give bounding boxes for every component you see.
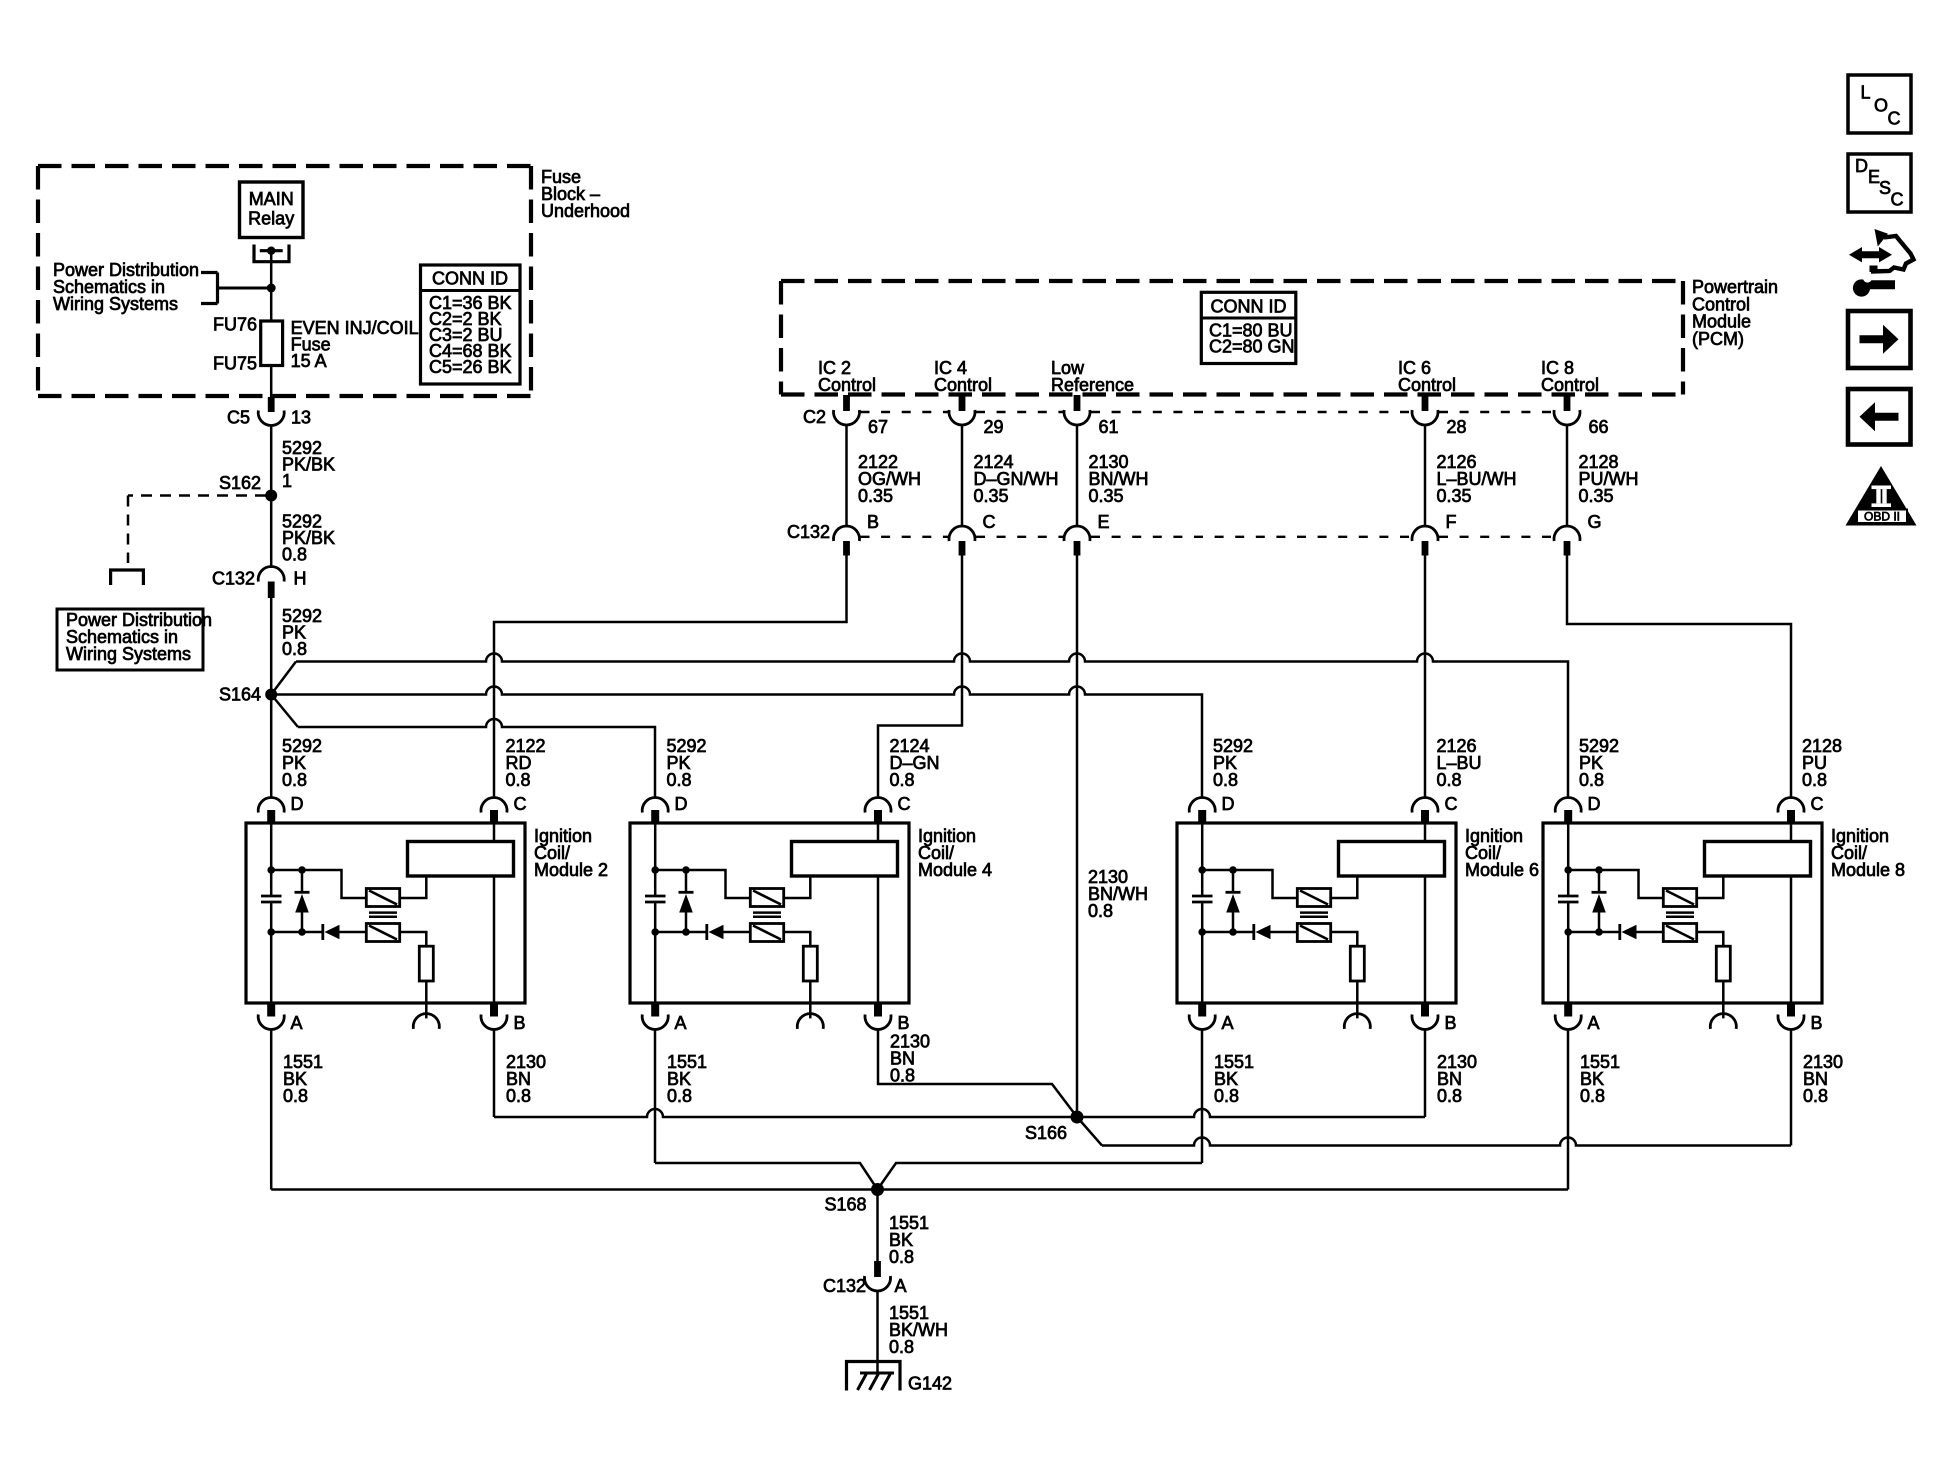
svg-text:C: C [1445,794,1458,814]
svg-text:0.8: 0.8 [506,770,531,790]
svg-text:C5: C5 [227,408,250,428]
splice S168 [824,1183,884,1215]
module 6 pin A connector [1189,1003,1233,1033]
module 2 pin A connector [258,1003,302,1033]
wire 2130 BN 0.8 module 8 pin B to S166 branch [1791,1030,1843,1146]
module 8 internal lower wire [1568,931,1620,934]
svg-text:D: D [1855,156,1868,176]
module 2 pin B connector [481,1003,526,1033]
PCM pin function label IC 4 Control [934,358,992,395]
wire 5292 PK 0.8 from S164 to module 2 pin D [271,695,322,798]
module 4 pin C connector [865,794,910,823]
svg-text:Wiring Systems: Wiring Systems [53,294,178,314]
svg-text:H: H [294,569,307,589]
module 4 wire igniter to primary [784,876,811,898]
splice S166 [1025,1111,1084,1144]
svg-text:0.8: 0.8 [282,770,307,790]
connector C132 terminal C [949,512,996,556]
svg-text:0.8: 0.8 [890,1066,915,1086]
wire 2130 BN 0.8 module 6 pin B to S166 [1425,1030,1477,1118]
svg-text:Relay: Relay [248,209,294,229]
wire 1551 BK 0.8 module 2 pin A to ground bus [271,1030,323,1190]
wire 2130 BN splice line through S166 [494,1109,1425,1117]
module 6 diode [1254,924,1298,940]
svg-text:0.35: 0.35 [1089,486,1124,506]
svg-text:61: 61 [1099,417,1119,437]
wire 2124 D–GN/WH 0.35 from PCM to C132 [962,425,1059,527]
module 8 wire igniter to pin B [1790,876,1793,1003]
svg-text:(PCM): (PCM) [1692,329,1744,349]
svg-text:C132: C132 [212,569,255,589]
module 6 junction dots [1198,866,1236,936]
module 8 pin D connector [1555,794,1600,823]
splice S164 [219,685,277,705]
wire 2124 D-GN 0.8 from C132 C to module 4 pin C [878,556,962,798]
ignition coil/module 8 box [1543,823,1822,1003]
svg-text:Underhood: Underhood [541,201,630,221]
module 8 resistor [1716,946,1730,981]
svg-text:13: 13 [291,408,311,428]
wire 2122 OG/WH 0.35 from PCM to C132 [847,425,922,527]
svg-text:S168: S168 [824,1195,866,1215]
wire 5292 PK/BK 1 from C5 to S162 [271,426,335,496]
svg-text:0.8: 0.8 [667,1086,692,1106]
icon OBD II triangle [1846,466,1917,526]
svg-text:0.35: 0.35 [1437,486,1472,506]
module 2 junction dots [267,866,305,936]
svg-text:0.8: 0.8 [1580,1086,1605,1106]
module 4 wire pin C to igniter [877,823,880,842]
wire S166 branch to module 8 pin B [1077,1117,1791,1146]
icon LOC box [1848,75,1911,133]
module 4 resistor [803,946,817,981]
module 8 zener diode [1592,870,1607,932]
module 6 coil secondary winding [1297,924,1330,942]
svg-text:Control: Control [934,375,992,395]
module 6 wire igniter to primary [1331,876,1358,898]
module 2 coil secondary winding [366,924,399,942]
wire 1551 BK 0.8 module 4 pin A to S168 [655,1030,878,1190]
connector C2 terminal 66 [1554,395,1609,437]
icon back arrow box [1848,389,1911,445]
svg-text:CONN ID: CONN ID [1211,297,1287,317]
module 2 internal supply wire [270,823,273,1003]
label Ignition Coil/ Module 4 [918,826,992,880]
wire 2122 RD 0.8 from C132 B to module 2 pin C [494,556,847,798]
module 6 wire igniter to pin B [1424,876,1427,1003]
connector C132 terminal F [1412,512,1457,556]
svg-text:0.8: 0.8 [1802,770,1827,790]
module 6 spark plug terminal (unterminated) [1344,1014,1370,1029]
wire 5292 PK bus to module 8 (top bus) [271,654,1568,798]
svg-text:Control: Control [818,375,876,395]
svg-text:A: A [1222,1013,1234,1033]
module 4 internal top wire to primary [655,870,750,898]
module 4 pin B connector [865,1003,910,1033]
ignition coil/module 2 box [246,823,525,1003]
svg-text:C2: C2 [803,407,826,427]
module 2 spark plug terminal (unterminated) [413,1014,439,1029]
icon DESC box [1848,154,1911,212]
connector C132 terminal A [823,1261,907,1296]
ground bus wire 1551 BK through S168 [271,1188,1568,1191]
wire 2128 PU/WH 0.35 from PCM to C132 [1567,425,1639,527]
module 8 coil core [1666,913,1694,917]
svg-text:0.8: 0.8 [283,1086,308,1106]
module 8 internal supply wire [1567,823,1570,1003]
module 4 wire resistor to spark output [809,981,812,1018]
module 4 pin A connector [642,1003,686,1033]
wire label 5292 PK 0.8 (module 6 pin D) [1213,736,1253,790]
module 2 igniter block [408,842,514,877]
svg-text:Module 2: Module 2 [534,860,608,880]
wire 2126 L–BU/WH 0.35 from PCM to C132 [1425,425,1517,527]
wire 5292 PK bus to module 6 (middle bus) [271,687,1202,798]
module 6 coil primary winding [1297,889,1330,907]
svg-text:0.35: 0.35 [858,486,893,506]
wire 1551 BK/WH 0.8 from C132 A to ground [878,1291,949,1373]
svg-text:B: B [1811,1013,1823,1033]
CONN ID table (PCM) [1201,292,1296,363]
svg-text:C: C [983,512,996,532]
module 4 coil primary winding [750,889,783,907]
ignition coil/module 4 box [630,823,909,1003]
svg-text:Control: Control [1398,375,1456,395]
wire 1551 BK 0.8 from S168 to C132 A [878,1190,930,1268]
svg-text:0.35: 0.35 [974,486,1009,506]
svg-text:OBD II: OBD II [1864,510,1900,524]
relay contact symbol [254,245,289,262]
svg-text:B: B [867,512,879,532]
module 2 wire igniter to pin B [493,876,496,1003]
wire 2126 L-BU 0.8 from C132 F to module 6 pin C [1425,556,1482,798]
svg-text:E: E [1098,512,1110,532]
svg-text:G142: G142 [908,1374,952,1394]
svg-text:D: D [1222,794,1235,814]
module 4 diode [707,924,751,940]
wire fuse to fuse block edge [270,366,273,398]
module 6 internal supply wire [1201,823,1204,1003]
module 4 igniter block [792,842,898,877]
module 6 resistor [1350,946,1364,981]
svg-text:Module 8: Module 8 [1831,860,1905,880]
module 4 wire igniter to pin B [877,876,880,1003]
svg-text:67: 67 [868,417,888,437]
svg-text:Control: Control [1541,375,1599,395]
svg-text:66: 66 [1589,417,1609,437]
svg-text:0.8: 0.8 [1437,1086,1462,1106]
module 2 wire pin C to igniter [493,823,496,842]
svg-text:D: D [291,794,304,814]
svg-text:C: C [898,794,911,814]
wire 5292 PK bus to module 4 (lower bus) [271,695,655,798]
svg-text:A: A [675,1013,687,1033]
wire 2130 BN 0.8 module 4 pin B to S166 [878,1030,1077,1118]
svg-text:S166: S166 [1025,1123,1067,1143]
svg-text:Module 4: Module 4 [918,860,992,880]
module 8 internal top wire to primary [1568,870,1663,898]
MAIN relay box [240,182,304,238]
svg-text:Module 6: Module 6 [1465,860,1539,880]
text Power Distribution Schematics in Wiring Systems (top) [53,260,199,314]
CONN ID table (fuse block) [421,265,521,384]
module 4 internal supply wire [654,823,657,1003]
module 2 coil core [369,913,397,917]
svg-text:CONN ID: CONN ID [432,269,508,289]
svg-text:S: S [1879,178,1891,198]
bracket to Power Distribution reference (top) [201,273,271,304]
module 8 capacitor [1558,896,1579,902]
svg-text:F: F [1446,512,1457,532]
module 8 spark plug terminal (unterminated) [1710,1014,1736,1029]
svg-text:C: C [514,794,527,814]
PCM pin function label IC 6 Control [1398,358,1456,395]
connector C2 terminal 61 [1064,395,1119,437]
module 2 internal top wire to primary [271,870,366,898]
svg-text:S164: S164 [219,685,261,705]
wire 5292 PK 0.8 from C132 H to S164 [271,598,322,695]
svg-text:B: B [1445,1013,1457,1033]
svg-text:A: A [895,1276,907,1296]
wire 2128 PU 0.8 from C132 G to module 8 pin C [1567,556,1842,798]
splice S162 [219,473,277,502]
junction node with power distribution branch [267,284,276,293]
svg-text:1: 1 [282,471,292,491]
ignition coil/module 6 box [1177,823,1456,1003]
connector row C2 dashed line [861,411,1554,413]
module 2 diode [323,924,367,940]
module 8 wire pin C to igniter [1790,823,1793,842]
svg-text:0.8: 0.8 [1803,1086,1828,1106]
svg-text:0.8: 0.8 [506,1086,531,1106]
svg-text:C: C [1888,108,1901,128]
module 8 wire resistor to spark output [1722,981,1725,1018]
box Power Distribution Schematics in Wiring Systems [57,609,212,670]
svg-text:MAIN: MAIN [249,189,294,209]
connector C132 terminal H [212,567,307,598]
module 6 wire pin C to igniter [1424,823,1427,842]
svg-text:FU75: FU75 [213,354,257,374]
module 4 pin D connector [642,794,687,823]
PCM pin function label IC 8 Control [1541,358,1599,395]
svg-text:0.8: 0.8 [1437,770,1462,790]
module 6 pin B connector [1412,1003,1457,1033]
wire 2130 BN/WH 0.8 low reference from C132 E to S166 [1077,556,1148,1118]
svg-text:0.8: 0.8 [667,770,692,790]
svg-text:15 A: 15 A [291,351,327,371]
module 6 capacitor [1192,896,1213,902]
svg-text:C132: C132 [787,522,830,542]
svg-text:0.8: 0.8 [1088,901,1113,921]
connector C2 terminal 28 [1412,395,1467,437]
dashed branch from S162 to power distribution reference [111,496,266,586]
module 4 coil secondary winding [750,924,783,942]
connector row C132 dashed line [861,536,1554,538]
module 4 junction dots [651,866,689,936]
module 4 internal lower wire [655,931,707,934]
svg-text:Reference: Reference [1051,375,1134,395]
Powertrain Control Module PCM (dashed box) [781,281,1683,395]
connector C2 terminal 29 [949,395,1004,437]
svg-text:28: 28 [1447,417,1467,437]
module 2 coil primary winding [366,889,399,907]
module 2 pin D connector [258,794,303,823]
module 6 igniter block [1339,842,1445,877]
label Powertrain Control Module (PCM) [1692,277,1778,349]
svg-text:Wiring Systems: Wiring Systems [66,644,191,664]
module 6 wire resistor to spark output [1356,981,1359,1018]
module 2 resistor [419,946,433,981]
module 4 zener diode [679,870,694,932]
svg-text:29: 29 [984,417,1004,437]
svg-text:0.35: 0.35 [1579,486,1614,506]
svg-text:S162: S162 [219,473,261,493]
fuse FU76/FU75 EVEN INJ/COIL 15 A [213,315,419,374]
module 2 internal lower wire [271,931,323,934]
module 6 pin C connector [1412,794,1458,823]
svg-text:B: B [514,1013,526,1033]
module 2 wire igniter to primary [400,876,427,898]
svg-text:C2=80 GN: C2=80 GN [1209,337,1295,357]
module 8 pin B connector [1778,1003,1823,1033]
label Fuse Block - Underhood [541,167,630,221]
svg-text:0.8: 0.8 [282,545,307,565]
svg-text:C: C [1811,794,1824,814]
svg-text:O: O [1874,95,1888,115]
module 2 pin C connector [481,794,527,823]
ground G142 [847,1362,953,1394]
module 6 wire secondary to resistor [1331,932,1358,946]
svg-text:0.8: 0.8 [282,639,307,659]
svg-text:C132: C132 [823,1276,866,1296]
module 8 coil primary winding [1663,889,1696,907]
module 8 wire igniter to primary [1697,876,1724,898]
wire 1551 BK 0.8 module 6 pin A to S168 [878,1030,1255,1190]
module 4 wire secondary to resistor [784,932,811,946]
module 8 junction dots [1564,866,1602,936]
module 8 pin A connector [1555,1003,1599,1033]
wire 2130 BN 0.8 module 2 pin B to S166 [494,1030,546,1118]
svg-text:0.8: 0.8 [889,1247,914,1267]
module 6 zener diode [1226,870,1241,932]
wire label 5292 PK 0.8 (module 4 pin D) [667,736,707,790]
wire 5292 PK/BK 0.8 from S162 to C132 H [271,496,335,569]
connector C5 terminal 13 [227,397,311,428]
fuse block - underhood (dashed box) [38,166,531,396]
connector C132 terminal E [1064,512,1110,556]
svg-text:C5=26 BK: C5=26 BK [429,357,512,377]
module 6 pin D connector [1189,794,1234,823]
module 2 wire secondary to resistor [400,932,427,946]
connector C132 terminal B [834,512,880,556]
wire label 5292 PK 0.8 (module 8 pin D) [1579,736,1619,790]
connector C2 terminal 67 [833,395,888,437]
module 8 igniter block [1705,842,1811,877]
label Ignition Coil/ Module 2 [534,826,608,880]
module 8 wire secondary to resistor [1697,932,1724,946]
connector C132 terminal G [1554,512,1602,556]
wire junction to fuse [270,288,273,321]
svg-text:0.8: 0.8 [890,770,915,790]
svg-text:FU76: FU76 [213,315,257,335]
wire 1551 BK 0.8 module 8 pin A to ground bus [1568,1030,1620,1190]
module 6 coil core [1300,913,1328,917]
label Ignition Coil/ Module 6 [1465,826,1539,880]
svg-text:B: B [898,1013,910,1033]
module 8 coil secondary winding [1663,924,1696,942]
svg-text:L: L [1861,83,1871,103]
svg-text:A: A [291,1013,303,1033]
wire from relay contact to junction [270,251,273,288]
module 2 zener diode [295,870,310,932]
module 2 wire resistor to spark output [425,981,428,1018]
PCM pin function label IC 2 Control [818,358,876,395]
module 4 capacitor [645,896,666,902]
svg-text:0.8: 0.8 [1213,770,1238,790]
label Ignition Coil/ Module 8 [1831,826,1905,880]
svg-text:D: D [1588,794,1601,814]
wire 2130 BN/WH 0.35 from PCM to C132 [1077,425,1149,527]
svg-text:0.8: 0.8 [1579,770,1604,790]
svg-text:C: C [1891,190,1904,210]
svg-text:A: A [1588,1013,1600,1033]
svg-text:G: G [1588,512,1602,532]
module 8 diode [1620,924,1664,940]
PCM pin function label Low Reference [1051,358,1134,395]
module 2 capacitor [261,896,282,902]
module 6 internal top wire to primary [1202,870,1297,898]
module 4 coil core [753,913,781,917]
module 8 pin C connector [1778,794,1824,823]
svg-text:D: D [675,794,688,814]
module 4 spark plug terminal (unterminated) [797,1014,823,1029]
icon forward arrow box [1848,311,1911,368]
module 6 internal lower wire [1202,931,1254,934]
icon vehicle repair (double arrow, outline, wrench) [1849,229,1914,297]
svg-text:0.8: 0.8 [889,1337,914,1357]
svg-text:0.8: 0.8 [1214,1086,1239,1106]
